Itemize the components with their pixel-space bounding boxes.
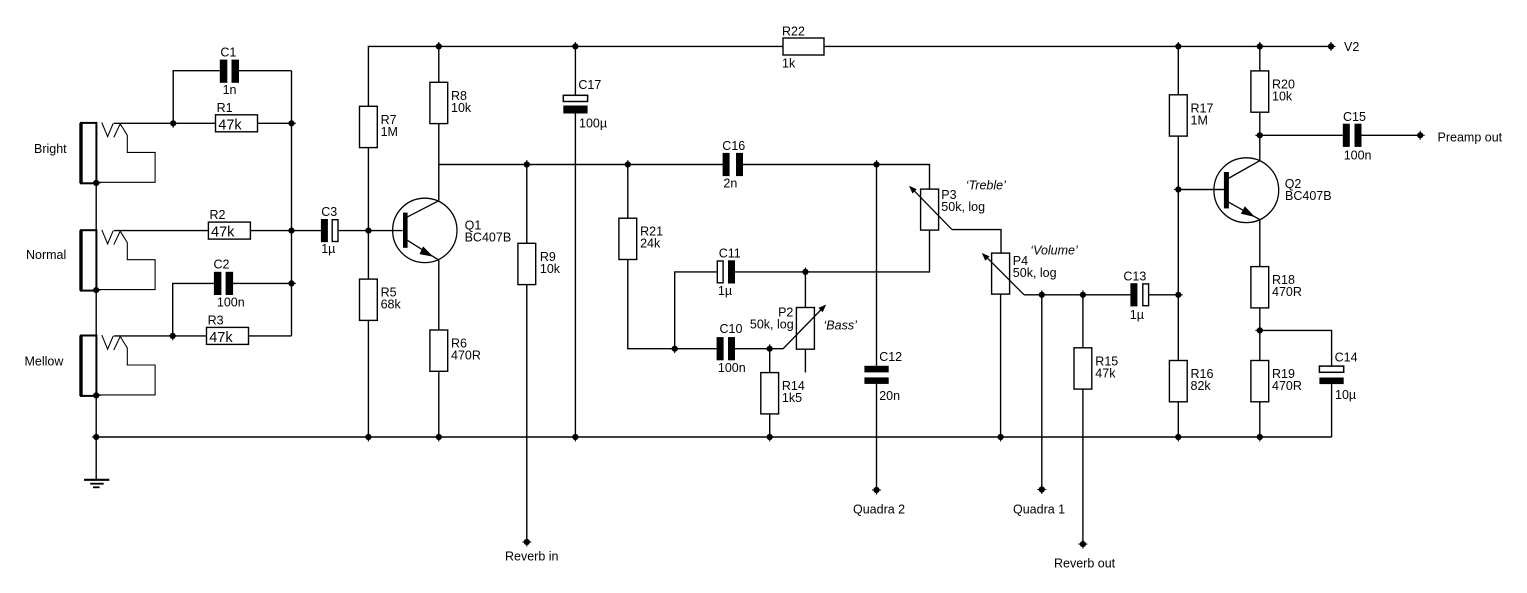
svg-text:100n: 100n (217, 296, 245, 310)
resistor R9 (518, 243, 536, 284)
input jack J2 Normal (81, 230, 155, 291)
wire P4 bottom lead to ground bus (1000, 294, 1002, 437)
wire R5 top lead (367, 231, 369, 280)
wire jack ground column 3 to bus (95, 396, 97, 437)
wire C10 right lead (735, 348, 770, 350)
svg-text:Reverb out: Reverb out (1054, 557, 1116, 571)
wire R1 line left (114, 122, 216, 124)
wire Q2 collector column (1259, 135, 1261, 160)
svg-text:20n: 20n (879, 389, 900, 403)
wire R15 top lead (1082, 295, 1084, 348)
wire ground bus (96, 436, 1331, 438)
svg-text:V2: V2 (1344, 40, 1359, 54)
svg-text:‘Treble’: ‘Treble’ (966, 179, 1006, 193)
resistor R5 (360, 279, 378, 320)
wire C2 right lead (233, 282, 292, 284)
svg-text:C13: C13 (1123, 270, 1146, 284)
wire jack ground column 2-3 (95, 290, 97, 335)
svg-text:C2: C2 (214, 258, 230, 272)
wire R19 bottom lead (1259, 402, 1261, 437)
svg-text:Normal: Normal (26, 248, 66, 262)
wire mid rail left (collector node to C16) (439, 164, 723, 166)
svg-text:Reverb in: Reverb in (505, 550, 559, 564)
wire R9 bottom to Reverb in terminal (526, 285, 528, 542)
junction R6/ground bus (434, 433, 443, 442)
svg-text:47k: 47k (218, 117, 242, 133)
junction jack3 sleeve (92, 391, 101, 400)
svg-text:C15: C15 (1343, 110, 1366, 124)
wire node up to C11 left (675, 272, 717, 349)
wire P3 wiper to P4 top (952, 230, 1001, 254)
svg-text:100n: 100n (718, 361, 746, 375)
potentiometer P2 (770, 305, 827, 350)
svg-text:1k: 1k (782, 56, 796, 70)
wire volume line (P4 wiper to C13) (1024, 294, 1130, 296)
resistor R8 (430, 82, 448, 123)
wire Quadra 1 drop (1041, 295, 1043, 490)
wire Q1 emitter to R6 (438, 260, 440, 330)
input jack J3 Mellow (81, 335, 155, 396)
wire C14 bottom lead (1331, 384, 1333, 437)
terminal V2 (1327, 42, 1336, 51)
svg-text:10µ: 10µ (1335, 388, 1356, 402)
wire C2 left lead (173, 283, 214, 336)
junction R20/Q2 collector/preamp (1255, 131, 1264, 140)
wire C12 bottom to Quadra 2 terminal (876, 384, 878, 490)
wire C1 right lead to input bus (239, 70, 292, 72)
resistor R2 (208, 222, 250, 239)
wire R2 line right (250, 230, 291, 232)
wire C1 left lead (173, 71, 220, 124)
svg-text:1µ: 1µ (718, 284, 732, 298)
svg-text:BC407B: BC407B (1285, 189, 1332, 203)
junction C10/R14/P2 wiper (765, 344, 774, 353)
wire C17 bottom lead to ground bus (574, 114, 576, 438)
capacitor C17 (563, 95, 587, 113)
junction Quadra1/volume line (1037, 290, 1046, 299)
svg-text:10k: 10k (451, 101, 472, 115)
junction R21/C10/C11 node (670, 344, 679, 353)
potentiometer P4 (982, 253, 1024, 295)
wire R15 bottom to Reverb out terminal (1082, 389, 1084, 544)
svg-text:R2: R2 (210, 208, 226, 222)
svg-text:50k, log: 50k, log (941, 200, 985, 214)
svg-text:1n: 1n (223, 83, 237, 97)
svg-text:1M: 1M (1191, 113, 1208, 127)
svg-text:470R: 470R (1272, 379, 1302, 393)
svg-text:C11: C11 (719, 246, 741, 260)
resistor R20 (1251, 71, 1269, 112)
terminal Quadra 2 (872, 486, 881, 495)
resistor R6 (430, 330, 448, 371)
svg-text:470R: 470R (451, 349, 481, 363)
wire R21 bottom to node at C10 left (628, 260, 675, 349)
wire R8 top lead (438, 46, 440, 82)
wire R14 bottom lead (769, 414, 771, 437)
wire V2 rail left (R7 top to R22) (368, 46, 783, 106)
capacitor C1 (220, 60, 239, 83)
wire right column (R17 bottom to R16 top) (1177, 136, 1179, 360)
svg-text:‘Bass’: ‘Bass’ (824, 318, 858, 332)
junction P2 top/C11 line (801, 268, 810, 277)
capacitor C12 (864, 366, 888, 384)
wire R5 bottom lead (367, 320, 369, 437)
wire R16 bottom lead (1177, 402, 1179, 437)
svg-text:47k: 47k (211, 225, 235, 241)
svg-text:C10: C10 (720, 322, 743, 336)
svg-text:100µ: 100µ (579, 116, 607, 130)
wire R2 line left (114, 230, 209, 232)
junction R1/input bus (287, 119, 296, 128)
svg-text:1M: 1M (381, 125, 398, 139)
wire C10 left lead (675, 348, 717, 350)
junction C13/right column (1174, 290, 1183, 299)
wire R21 top lead (627, 165, 629, 219)
svg-text:C1: C1 (220, 46, 236, 60)
junction C17/rail (571, 42, 580, 51)
wire R6 bottom lead (438, 371, 440, 437)
wire Q2 base (1178, 189, 1224, 191)
junction R19/ground bus (1255, 433, 1264, 442)
resistor R3 (207, 327, 249, 344)
wire input bus vertical (291, 71, 293, 336)
svg-text:R3: R3 (208, 314, 224, 328)
capacitor C13 (1130, 283, 1148, 306)
svg-text:2n: 2n (723, 176, 737, 190)
junction R9/mid rail (522, 160, 531, 169)
junction Q1 base node (364, 226, 373, 235)
capacitor C16 (723, 153, 743, 176)
svg-text:100n: 100n (1344, 149, 1372, 163)
wire R3 right lead (249, 335, 292, 337)
svg-text:47k: 47k (1095, 366, 1116, 380)
svg-text:Preamp out: Preamp out (1438, 130, 1503, 144)
resistor R16 (1169, 361, 1187, 402)
svg-text:BC407B: BC407B (465, 231, 512, 245)
wire R20 bottom lead (1259, 112, 1261, 135)
ground (84, 437, 109, 487)
wire R18 bottom lead (1259, 308, 1261, 331)
junction R18/R19/C14 (1255, 326, 1264, 335)
wire Q2 emitter to R18 (1259, 220, 1261, 267)
junction R21/mid rail (623, 160, 632, 169)
resistor R14 (761, 373, 779, 414)
wire P2 bottom lead (open) (804, 349, 806, 372)
terminal Reverb in (522, 538, 531, 547)
junction C2/input bus (287, 279, 296, 288)
wire R3 line left (114, 335, 207, 337)
resistor R17 (1169, 95, 1187, 136)
resistor R22 (783, 38, 824, 55)
wire C17 top lead (574, 46, 576, 95)
junction R2/C3/input bus (287, 226, 296, 235)
wire P2 top lead (804, 272, 806, 308)
wire V2 rail right (R22 to V2 terminal) (824, 45, 1331, 47)
resistor R1 (216, 115, 258, 132)
junction R16/ground bus (1174, 433, 1183, 442)
junction ground bus at ground symbol (92, 433, 101, 442)
svg-text:68k: 68k (381, 298, 402, 312)
svg-text:1k5: 1k5 (782, 391, 802, 405)
junction C12/mid rail (872, 160, 881, 169)
junction R20/rail (1255, 42, 1264, 51)
junction R15/volume line (1079, 290, 1088, 299)
svg-text:‘Volume’: ‘Volume’ (1030, 244, 1078, 258)
resistor R18 (1251, 267, 1269, 308)
junction C2/R3 left (168, 332, 177, 341)
capacitor C14 (1319, 366, 1343, 384)
wire R9 top lead (526, 165, 528, 244)
capacitor C10 (717, 337, 735, 360)
wire jack ground column 1-2 (95, 183, 97, 230)
transistor Q1 (393, 198, 457, 262)
terminal Reverb out (1078, 540, 1087, 549)
svg-text:1µ: 1µ (321, 242, 335, 256)
svg-text:10k: 10k (540, 262, 561, 276)
svg-text:50k, log: 50k, log (1013, 266, 1057, 280)
svg-text:50k, log: 50k, log (750, 318, 794, 332)
svg-text:Bright: Bright (34, 142, 67, 156)
svg-text:C17: C17 (578, 78, 601, 92)
svg-text:24k: 24k (640, 237, 661, 251)
junction R8/rail (434, 42, 443, 51)
wire node to C14 top (1260, 330, 1332, 366)
svg-text:R22: R22 (782, 25, 805, 39)
wire C3 left lead (292, 230, 321, 232)
wire preamp line right (C15 to terminal) (1362, 134, 1421, 136)
svg-text:470R: 470R (1272, 285, 1302, 299)
wire C13 right lead (1149, 294, 1178, 296)
capacitor C3 (321, 219, 338, 242)
wire R14 top lead (769, 349, 771, 373)
wire R7 bottom lead (367, 148, 369, 231)
junction R14/ground bus (765, 433, 774, 442)
svg-text:1µ: 1µ (1130, 308, 1144, 322)
svg-text:Quadra 2: Quadra 2 (853, 503, 905, 517)
wire R20 top lead (1259, 46, 1261, 71)
svg-text:47k: 47k (209, 330, 233, 346)
svg-text:Quadra 1: Quadra 1 (1013, 503, 1065, 517)
input jack J1 Bright (81, 123, 155, 184)
capacitor C2 (214, 272, 233, 295)
junction R5/ground bus (364, 433, 373, 442)
junction R17/rail (1174, 42, 1183, 51)
wire R19 top lead (1259, 330, 1261, 360)
junction jack2 sleeve (92, 286, 101, 295)
svg-text:C14: C14 (1335, 351, 1358, 365)
wire R1 line right (258, 122, 292, 124)
resistor R21 (619, 218, 637, 259)
capacitor C15 (1343, 124, 1362, 147)
wire C12 top lead from mid rail (876, 165, 878, 366)
transistor Q2 (1214, 158, 1279, 223)
wire preamp line left (to C15) (1260, 134, 1343, 136)
junction Q2 base/right column (1174, 185, 1183, 194)
wire C3 right lead to base node (339, 230, 369, 232)
resistor R7 (360, 106, 378, 147)
capacitor C11 (717, 260, 735, 283)
terminal Preamp out (1416, 131, 1425, 140)
svg-text:C12: C12 (879, 350, 902, 364)
wire C11 right / P3 bottom lead (735, 230, 930, 272)
svg-text:Mellow: Mellow (25, 355, 65, 369)
svg-text:82k: 82k (1191, 379, 1212, 393)
junction C17/ground bus (571, 433, 580, 442)
svg-text:R1: R1 (217, 101, 233, 115)
junction P4/ground bus (996, 433, 1005, 442)
wire R17 top lead (1177, 46, 1179, 94)
svg-text:C16: C16 (722, 139, 745, 153)
wire Q1 collector column (R8 bottom to Q1) (438, 124, 440, 201)
potentiometer P3 (909, 186, 952, 230)
wire Q1 base (368, 230, 402, 232)
svg-text:C3: C3 (321, 205, 337, 219)
svg-text:10k: 10k (1272, 89, 1293, 103)
wire mid rail right (C16 to P3 top) (743, 165, 930, 190)
junction jack1 sleeve (92, 179, 101, 188)
resistor R15 (1074, 348, 1092, 389)
terminal Quadra 1 (1037, 485, 1046, 494)
resistor R19 (1251, 361, 1269, 402)
junction C1/R1 left (169, 119, 178, 128)
